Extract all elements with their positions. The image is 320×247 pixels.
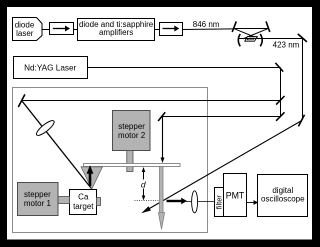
wire diode laser to isolator I1 (42, 29, 50, 31)
doubling cavity mirror M2 (flat, right) (266, 21, 270, 32)
Nd:YAG laser box (14, 57, 88, 79)
focusing lens L1 (tilted) (35, 118, 56, 137)
423nm probe beam diagonal into chamber (144, 121, 302, 212)
svg-text:diode: diode (15, 20, 35, 29)
wire 846nm beam to doubling cavity (183, 28, 234, 31)
svg-text:stepper: stepper (118, 122, 145, 131)
cavity crossing beam right-to-crystal (243, 29, 268, 39)
svg-text:PMT: PMT (226, 191, 245, 201)
ablation plume (gray cone) (81, 167, 103, 189)
svg-text:amplifiers: amplifiers (99, 28, 133, 37)
svg-text:filter: filter (215, 195, 224, 210)
dotted interaction line (135, 200, 160, 202)
cavity top beam (233, 28, 269, 30)
wire PMT to oscilloscope (247, 202, 255, 204)
optical isolator I1 (50, 23, 74, 35)
target side tab (97, 198, 101, 206)
curved mirror M3 (left) (238, 34, 240, 46)
svg-text:oscilloscope: oscilloscope (261, 195, 305, 204)
translation plate (84, 164, 181, 167)
cavity crossing beam left-to-crystal (235, 29, 260, 39)
filter box (215, 188, 224, 217)
vacuum chamber box (13, 88, 208, 233)
svg-text:Ca: Ca (78, 193, 89, 202)
fluorescence arrow (167, 200, 183, 202)
amplifier box (78, 19, 155, 41)
Ca target box (70, 190, 97, 215)
curved mirror M4 (right) (260, 34, 262, 46)
svg-text:846 nm: 846 nm (193, 20, 220, 29)
doubling cavity mirror M1 (flat, left) (232, 21, 236, 32)
svg-text:423 nm: 423 nm (273, 40, 300, 49)
ablation beam diagonal to target (22, 100, 92, 189)
svg-text:d: d (141, 180, 146, 190)
stepper motor 2 clamp below plate (127, 167, 133, 172)
svg-text:motor 2: motor 2 (118, 131, 146, 140)
atomic beam gray band (160, 167, 164, 214)
cavity bottom beam / 423nm output (239, 38, 303, 40)
collection lens L2 (192, 191, 198, 213)
distance d dimension arrow (143, 170, 145, 180)
svg-text:target: target (73, 202, 94, 211)
detection axis line (186, 201, 215, 203)
atomic beam arrowhead (158, 213, 164, 230)
mirror M10 (chamber top left) (18, 94, 25, 107)
PMT box (224, 174, 247, 217)
diode laser (13, 18, 43, 41)
wire isolator I1 to amplifiers (74, 29, 78, 31)
stepper motor 2 box (113, 111, 151, 151)
digital oscilloscope box (258, 175, 308, 217)
Nd:YAG output beam (88, 67, 281, 69)
svg-text:Nd:YAG Laser: Nd:YAG Laser (24, 63, 76, 72)
Nd:YAG vertical beam (280, 68, 282, 117)
stepper motor 2 shaft (127, 151, 133, 164)
wire amplifiers to isolator I2 (155, 29, 160, 31)
beamsplitter M8 (276, 96, 284, 105)
mirror M9 (276, 112, 284, 121)
beam down to plate (162, 117, 164, 159)
plume up arrow (89, 172, 92, 186)
svg-text:laser: laser (16, 29, 34, 38)
mirror M6 (right, sends probe diagonally) (298, 115, 304, 127)
mirror M11 (above plate) (158, 112, 165, 121)
optical isolator I2 (160, 23, 183, 36)
second beam horizontal (162, 116, 281, 118)
stepper motor 1 shaft (58, 197, 70, 204)
423nm beam vertical right side (302, 39, 304, 119)
ablation beam horizontal (22, 100, 281, 102)
mirror M5 (top right corner) (298, 34, 307, 42)
mirror M7 (275, 63, 283, 72)
doubling crystal (245, 37, 257, 42)
svg-text:motor 1: motor 1 (24, 199, 52, 208)
stepper motor 1 box (18, 183, 59, 216)
